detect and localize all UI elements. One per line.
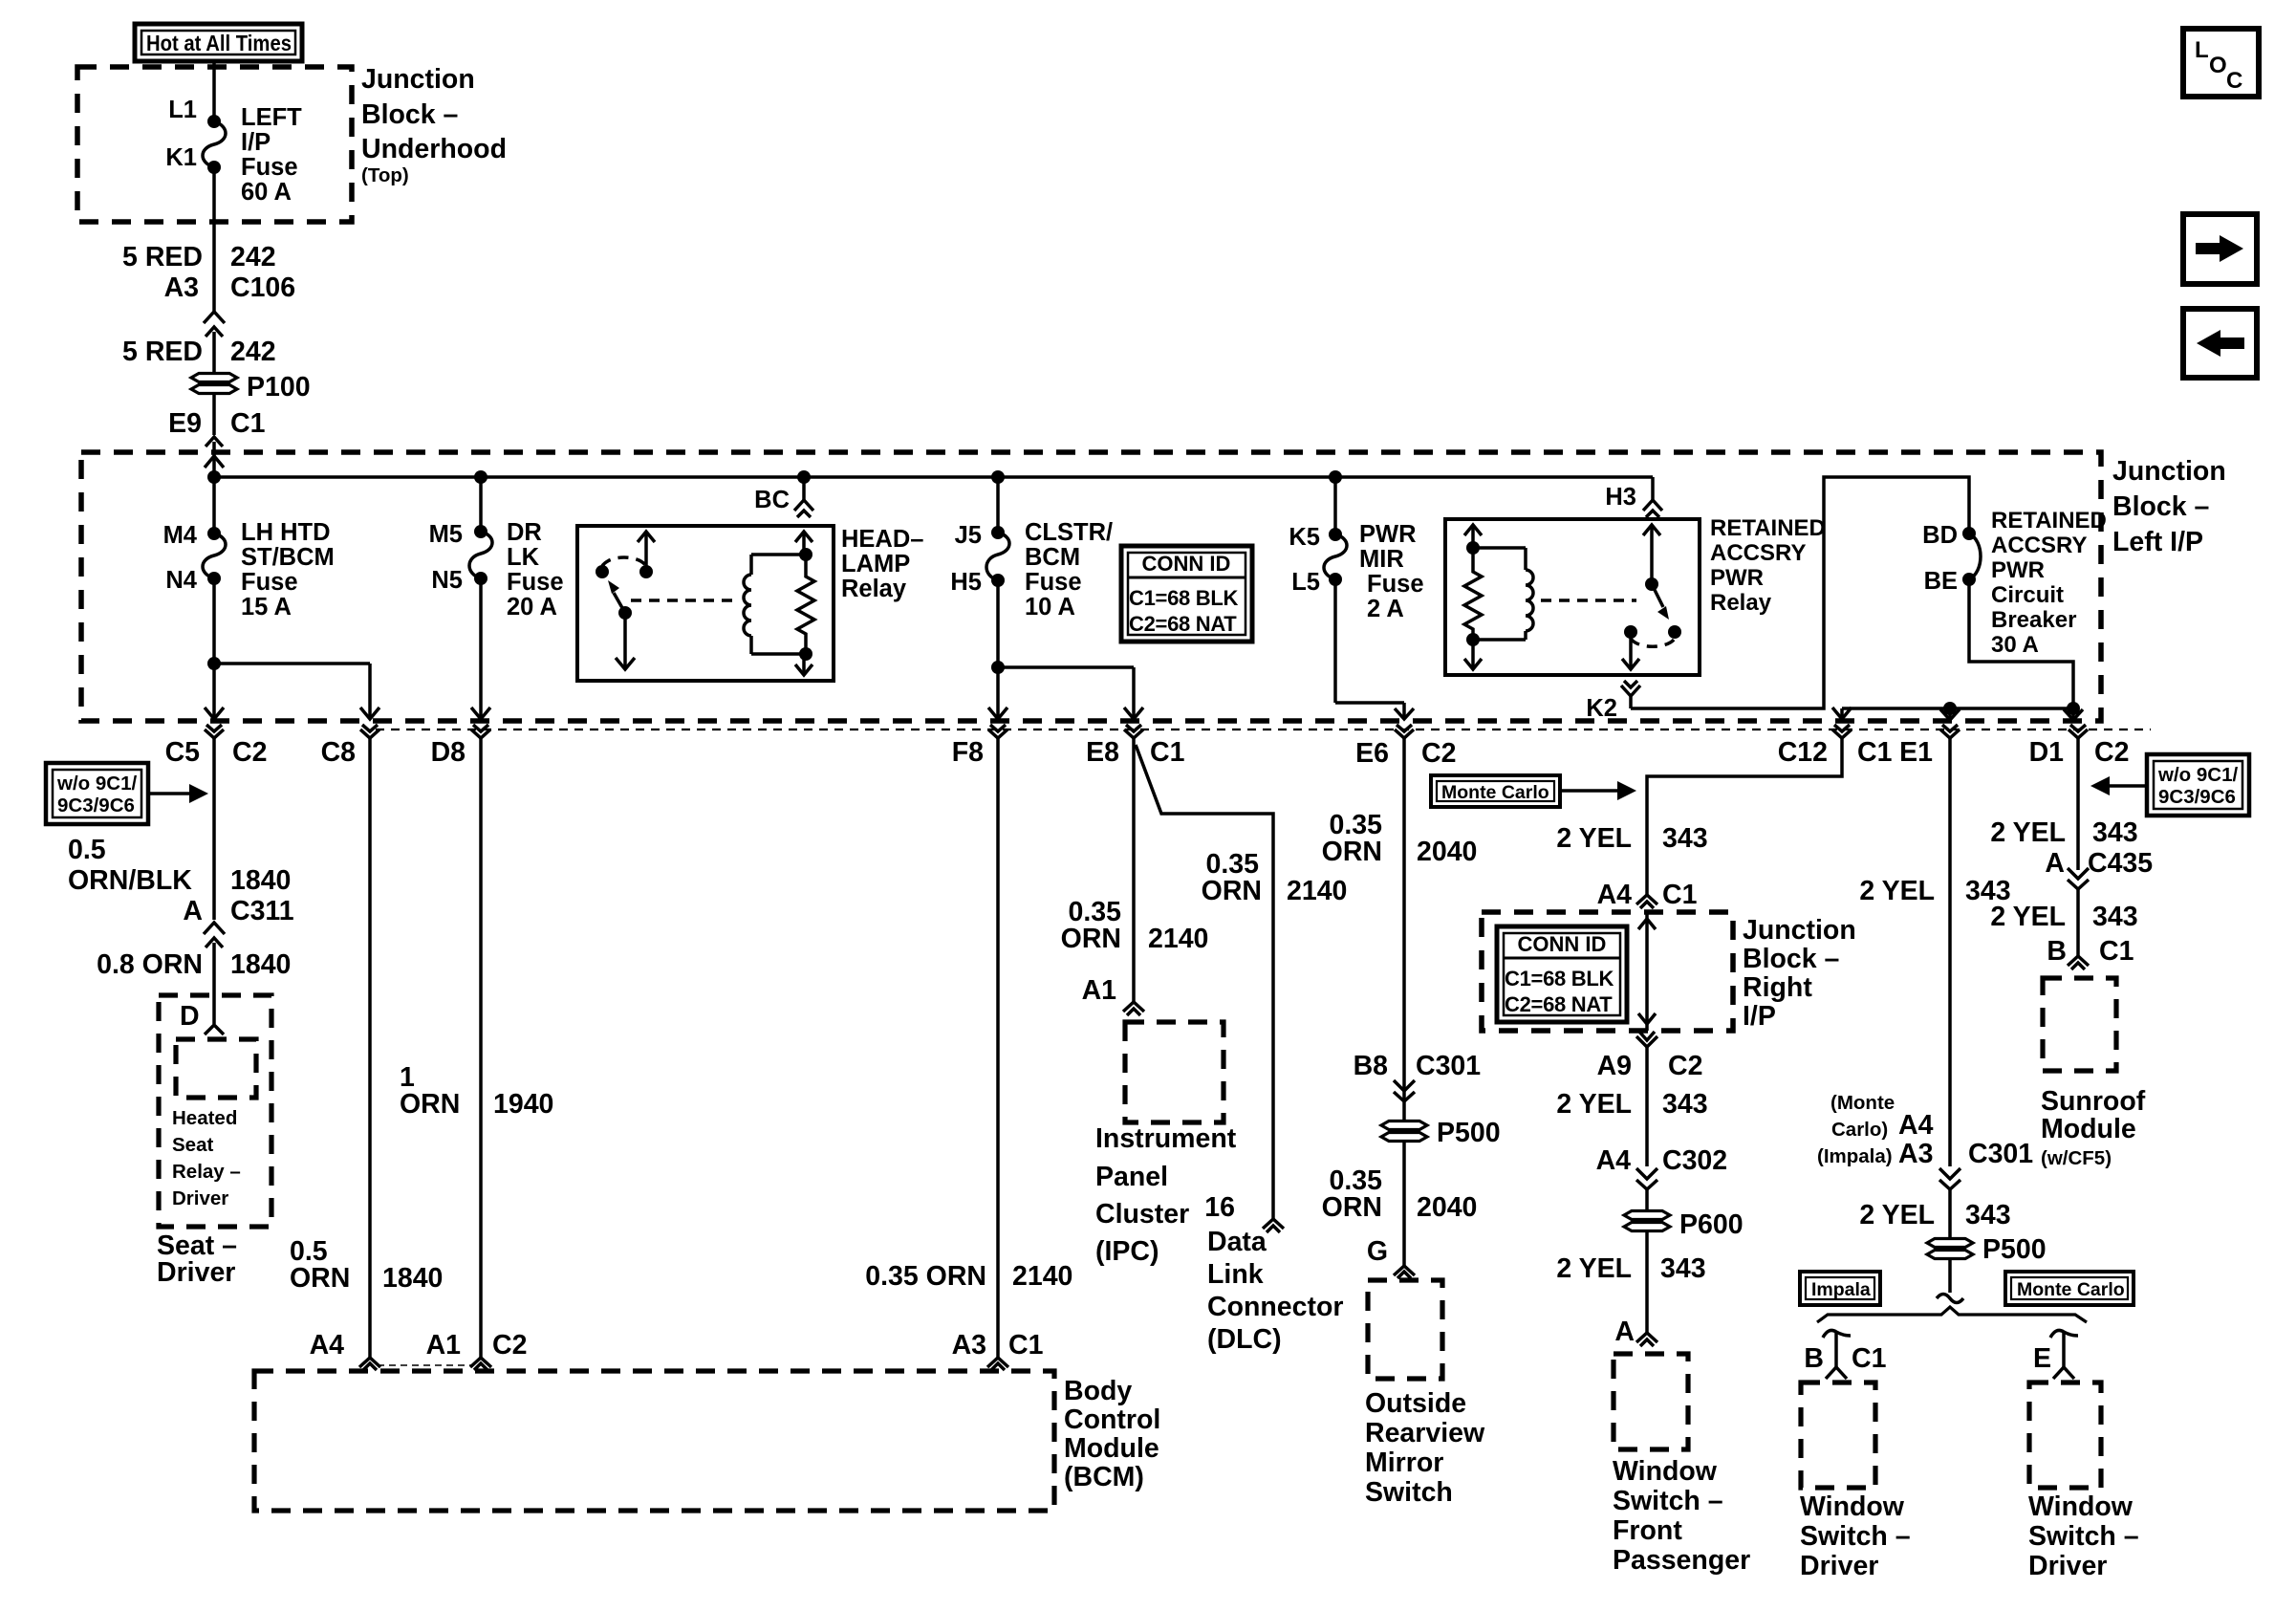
BCM pin A1/C2 xyxy=(426,1330,528,1370)
CONN ID table (left) xyxy=(1121,546,1252,642)
fuse DR LK 20A (M5/N5) xyxy=(429,477,564,620)
svg-text:C1: C1 xyxy=(1150,737,1185,768)
driver window switch lead E (Monte Carlo) xyxy=(2033,1330,2078,1379)
svg-text:(IPC): (IPC) xyxy=(1095,1236,1159,1267)
svg-text:Window: Window xyxy=(1800,1491,1905,1522)
svg-text:B: B xyxy=(1804,1343,1824,1374)
JB right pin A9/C2 xyxy=(1597,1032,1703,1166)
svg-text:K5: K5 xyxy=(1289,524,1320,551)
connector C106 (A3) in-line, pointing up xyxy=(164,272,296,374)
svg-text:343: 343 xyxy=(1662,1089,1708,1120)
wire through JB right with arrows xyxy=(1638,912,1656,1031)
svg-text:(Monte: (Monte xyxy=(1830,1092,1895,1114)
svg-text:2140: 2140 xyxy=(1287,876,1347,906)
connector E1 xyxy=(1899,725,1960,1166)
left arrow nav box xyxy=(2183,309,2257,378)
arrow down at C5/C2 exit xyxy=(205,708,224,719)
svg-text:Seat: Seat xyxy=(172,1134,213,1156)
headlamp relay resistor xyxy=(797,555,814,654)
wire label 0.35 ORN 2040 (E6 wire upper) xyxy=(1322,810,1478,867)
svg-text:60 A: 60 A xyxy=(241,179,292,206)
RETAINED ACCSRY PWR relay box xyxy=(1445,519,1700,675)
svg-text:Relay –: Relay – xyxy=(172,1161,241,1183)
svg-text:2040: 2040 xyxy=(1417,837,1477,867)
svg-text:2 YEL: 2 YEL xyxy=(1859,1200,1935,1230)
wire from E8 down to IPC xyxy=(1132,737,1136,1002)
svg-text:9C3/9C6: 9C3/9C6 xyxy=(57,795,135,816)
wire from Hot at All Times into fuse L1 xyxy=(212,59,216,121)
svg-text:Panel: Panel xyxy=(1095,1162,1168,1192)
svg-text:ORN: ORN xyxy=(400,1089,460,1120)
svg-text:A3: A3 xyxy=(164,272,199,303)
wire label 0.5 ORN 1840 (C8 wire) xyxy=(290,1236,443,1294)
svg-text:30 A: 30 A xyxy=(1991,632,2039,658)
wire label 5 RED 242 (above C106) xyxy=(122,242,276,272)
svg-text:Link: Link xyxy=(1207,1259,1264,1290)
svg-text:2 YEL: 2 YEL xyxy=(1556,1253,1632,1284)
svg-text:0.35 ORN: 0.35 ORN xyxy=(865,1261,986,1292)
output rail to C12 / E1 / D1 xyxy=(1842,702,2080,719)
svg-text:H5: H5 xyxy=(950,569,982,596)
svg-text:ORN: ORN xyxy=(1322,1192,1382,1223)
svg-text:P500: P500 xyxy=(1982,1234,2047,1265)
connector chevron below E9 C1 xyxy=(206,437,223,446)
svg-text:C1: C1 xyxy=(1852,1343,1887,1374)
svg-text:I/P: I/P xyxy=(1743,1001,1776,1032)
svg-text:C: C xyxy=(2226,68,2242,94)
svg-text:C1=68 BLK: C1=68 BLK xyxy=(1129,586,1238,610)
svg-text:2140: 2140 xyxy=(1012,1261,1072,1292)
svg-text:E9: E9 xyxy=(168,408,202,439)
w/o 9C1/9C3/9C6 flag box (left) xyxy=(46,763,208,824)
svg-text:L5: L5 xyxy=(1291,569,1320,596)
svg-text:2 A: 2 A xyxy=(1367,596,1404,622)
svg-text:ORN/BLK: ORN/BLK xyxy=(68,865,192,896)
svg-text:Body: Body xyxy=(1064,1376,1132,1406)
Window Switch - Driver label (Impala) xyxy=(1800,1491,1911,1581)
dashed link between BCM pins A4 and A1 xyxy=(378,1364,473,1366)
fuse LEFT I/P 60A (L1/K1) xyxy=(165,97,302,206)
svg-text:B: B xyxy=(2047,936,2067,967)
splice P500 (mirror wire) xyxy=(1381,1118,1501,1148)
svg-text:Window: Window xyxy=(1613,1456,1718,1487)
Window Switch - Driver dashed box (Monte Carlo) xyxy=(2029,1382,2101,1488)
wire from fuse K1 down to connector C106 xyxy=(212,167,216,312)
svg-text:ORN: ORN xyxy=(1202,876,1262,906)
svg-text:Breaker: Breaker xyxy=(1991,607,2076,633)
svg-text:A4: A4 xyxy=(310,1330,345,1361)
svg-text:A: A xyxy=(1614,1317,1635,1347)
connector E6/C2 xyxy=(1355,725,1456,1266)
svg-text:0.5: 0.5 xyxy=(68,835,106,865)
wire from P600 to window switch xyxy=(1645,1231,1649,1333)
wire label 2 YEL 343 (monte carlo middle) xyxy=(1556,1089,1707,1120)
Impala flag box xyxy=(1800,1272,1880,1305)
retained relay coil drive dashed wire xyxy=(1541,599,1636,602)
wire label 5 RED 242 (below C106) xyxy=(122,337,276,367)
Window Switch - Driver label (Monte Carlo) xyxy=(2028,1491,2139,1581)
Window Switch - Front Passenger dashed box xyxy=(1614,1354,1688,1449)
svg-text:343: 343 xyxy=(1662,823,1708,854)
svg-text:C12: C12 xyxy=(1778,737,1828,768)
elbow from C12 to monte carlo wire xyxy=(1647,737,1842,895)
svg-text:Fuse: Fuse xyxy=(241,154,298,181)
svg-text:B8: B8 xyxy=(1354,1051,1388,1081)
svg-text:15 A: 15 A xyxy=(241,594,292,620)
headlamp relay internal connections xyxy=(751,532,812,675)
svg-text:LEFT: LEFT xyxy=(241,104,302,131)
svg-text:PWR: PWR xyxy=(1710,565,1764,591)
wire label 2 YEL 343 (D1 lower) xyxy=(1990,902,2137,932)
connector plane thin dashed line xyxy=(376,729,2151,730)
svg-text:1840: 1840 xyxy=(382,1263,443,1294)
retained relay pin K2 xyxy=(1586,681,1640,722)
svg-text:C1: C1 xyxy=(1662,880,1698,910)
svg-text:Right: Right xyxy=(1743,972,1812,1003)
fuse CLSTR/BCM 10A (J5/H5) xyxy=(950,477,1113,620)
wire label 0.35 ORN 2040 (E6 wire lower) xyxy=(1322,1165,1478,1223)
svg-text:Fuse: Fuse xyxy=(1025,569,1082,596)
svg-text:A: A xyxy=(2045,848,2065,879)
circuit breaker BD/BE xyxy=(1922,522,1981,595)
svg-text:242: 242 xyxy=(230,242,276,272)
svg-text:Driver: Driver xyxy=(1800,1551,1878,1581)
IPC pin A1 xyxy=(1082,975,1144,1015)
svg-text:C2: C2 xyxy=(1421,738,1456,769)
svg-text:RETAINED: RETAINED xyxy=(1991,508,2107,533)
svg-text:Underhood: Underhood xyxy=(361,134,507,164)
Instrument Panel Cluster label xyxy=(1095,1123,1237,1267)
svg-text:PWR: PWR xyxy=(1359,521,1417,548)
svg-text:D8: D8 xyxy=(431,737,466,768)
svg-text:D1: D1 xyxy=(2029,737,2065,768)
svg-text:Driver: Driver xyxy=(157,1257,235,1288)
svg-text:Junction: Junction xyxy=(2112,456,2226,487)
svg-text:2 YEL: 2 YEL xyxy=(1556,823,1632,854)
svg-text:Switch –: Switch – xyxy=(2028,1521,2139,1552)
svg-text:C311: C311 xyxy=(230,896,294,926)
driver window switch lead B/C1 (Impala) xyxy=(1804,1330,1886,1379)
svg-text:Sunroof: Sunroof xyxy=(2041,1086,2146,1117)
svg-text:N4: N4 xyxy=(165,567,197,594)
arrow down at C8 exit xyxy=(360,708,379,719)
svg-text:Outside: Outside xyxy=(1365,1388,1466,1419)
splice P100 xyxy=(191,372,311,403)
svg-text:Mirror: Mirror xyxy=(1365,1448,1443,1478)
wire label 2 YEL 343 (monte carlo upper) xyxy=(1556,823,1707,854)
svg-text:C1: C1 xyxy=(1857,737,1893,768)
svg-text:Fuse: Fuse xyxy=(241,569,298,596)
svg-text:Connector: Connector xyxy=(1207,1292,1344,1322)
svg-text:ACCSRY: ACCSRY xyxy=(1710,540,1806,566)
svg-text:I/P: I/P xyxy=(241,129,271,156)
headlamp relay label xyxy=(841,526,923,602)
CONN ID table (right) xyxy=(1497,926,1627,1022)
Sunroof Module label xyxy=(2041,1086,2146,1169)
svg-text:Junction: Junction xyxy=(361,64,475,95)
wire label 2 YEL 343 (E1 upper) xyxy=(1859,876,2010,906)
Data Link Connector label xyxy=(1207,1227,1344,1355)
connector C301 labels (Monte Carlo A4 / Impala A3) xyxy=(1817,1092,2033,1169)
svg-text:Cluster: Cluster xyxy=(1095,1199,1189,1230)
circuit breaker label xyxy=(1991,508,2107,658)
svg-text:A4: A4 xyxy=(1596,1145,1632,1176)
svg-text:2040: 2040 xyxy=(1417,1192,1477,1223)
retained relay switch xyxy=(1622,525,1681,669)
svg-text:L: L xyxy=(2195,37,2209,63)
HEADLAMP relay box xyxy=(577,526,834,681)
svg-text:ACCSRY: ACCSRY xyxy=(1991,533,2087,558)
svg-text:C2=68 NAT: C2=68 NAT xyxy=(1505,992,1613,1016)
svg-text:HEAD–: HEAD– xyxy=(841,526,923,553)
svg-text:H3: H3 xyxy=(1605,484,1636,511)
svg-text:Monte Carlo: Monte Carlo xyxy=(1441,782,1549,803)
svg-text:BD: BD xyxy=(1922,522,1958,549)
wire label 2 YEL 343 (monte carlo lower) xyxy=(1556,1253,1705,1284)
svg-text:BC: BC xyxy=(754,487,790,513)
svg-text:L1: L1 xyxy=(168,97,197,123)
wire below P500 with break squiggle xyxy=(1937,1259,1963,1303)
svg-text:A: A xyxy=(183,896,203,926)
connector C302 (A4) in-line xyxy=(1596,1145,1728,1211)
wire from BE to output rail xyxy=(1969,579,2073,708)
wire from N4 down with branch to C8 xyxy=(207,578,370,719)
wire from P100 down to E9 C1 connector xyxy=(212,394,216,435)
svg-text:Module: Module xyxy=(1064,1433,1159,1464)
wire label 0.8 ORN 1840 xyxy=(97,949,291,980)
wire label 0.35 ORN 2140 (E8 wire) xyxy=(1061,897,1209,954)
svg-text:Block –: Block – xyxy=(2112,491,2209,522)
svg-text:Instrument: Instrument xyxy=(1095,1123,1237,1154)
svg-text:LH HTD: LH HTD xyxy=(241,519,330,546)
split brace xyxy=(1817,1307,2087,1322)
svg-text:A4: A4 xyxy=(1597,880,1633,910)
svg-text:C8: C8 xyxy=(321,737,356,768)
connector C301 (B8) in-line xyxy=(1354,1051,1482,1101)
svg-text:BE: BE xyxy=(1924,568,1958,595)
svg-text:1940: 1940 xyxy=(493,1089,553,1120)
svg-text:BCM: BCM xyxy=(1025,544,1080,571)
wire arrow into heated seat relay xyxy=(205,1025,224,1034)
svg-text:343: 343 xyxy=(2092,817,2138,848)
svg-text:0.8 ORN: 0.8 ORN xyxy=(97,949,203,980)
svg-text:RETAINED: RETAINED xyxy=(1710,515,1826,541)
svg-text:ORN: ORN xyxy=(1322,837,1382,867)
svg-text:Module: Module xyxy=(2041,1114,2136,1144)
svg-text:Control: Control xyxy=(1064,1404,1160,1435)
svg-text:w/o 9C1/: w/o 9C1/ xyxy=(56,773,137,795)
sunroof module pin B/C1 xyxy=(2047,936,2134,969)
svg-text:O: O xyxy=(2209,53,2227,78)
svg-text:10 A: 10 A xyxy=(1025,594,1075,620)
Heated Seat Relay - Driver outer dashed box xyxy=(159,995,271,1227)
svg-text:C2: C2 xyxy=(1668,1051,1702,1081)
JB right pin A4/C1 xyxy=(1597,880,1698,910)
svg-text:N5: N5 xyxy=(431,567,463,594)
svg-text:P100: P100 xyxy=(247,372,311,403)
svg-text:C302: C302 xyxy=(1662,1145,1727,1176)
connector C301 (E1) in-line xyxy=(1939,1168,1960,1239)
svg-text:343: 343 xyxy=(1965,1200,2011,1230)
Junction Block - Underhood label xyxy=(361,64,507,186)
w/o 9C1/9C3/9C6 flag box (right) xyxy=(2090,754,2249,816)
svg-text:C301: C301 xyxy=(1968,1139,2033,1169)
svg-text:C1=68 BLK: C1=68 BLK xyxy=(1505,967,1614,991)
connector C12/C1 xyxy=(1778,725,1893,768)
svg-text:A9: A9 xyxy=(1597,1051,1632,1081)
svg-text:20 A: 20 A xyxy=(507,594,557,620)
svg-text:A4: A4 xyxy=(1898,1110,1934,1141)
connector D8 xyxy=(431,725,490,1358)
svg-text:C1: C1 xyxy=(2099,936,2134,967)
connector D1/C2 xyxy=(2029,725,2130,870)
BCM pin A3/C1 xyxy=(952,1330,1044,1370)
svg-text:C2: C2 xyxy=(492,1330,527,1361)
svg-text:242: 242 xyxy=(230,337,276,367)
svg-text:Hot at All Times: Hot at All Times xyxy=(146,31,292,55)
svg-text:Driver: Driver xyxy=(172,1187,228,1209)
diagonal branch from E8 to DLC drop xyxy=(1136,745,1273,1219)
main bus wire inside junction block xyxy=(214,475,1653,479)
wire label 0.35 ORN 2140 (F8 wire) xyxy=(865,1261,1072,1292)
Outside Rearview Mirror Switch dashed box xyxy=(1368,1280,1442,1379)
svg-text:(Top): (Top) xyxy=(361,164,409,186)
connector C5/C2 xyxy=(165,725,268,920)
svg-text:2 YEL: 2 YEL xyxy=(1990,817,2066,848)
Junction Block - Right I/P label xyxy=(1743,915,1856,1032)
wire label 0.5 ORN/BLK 1840 xyxy=(68,835,291,896)
retained relay resistor xyxy=(1464,525,1482,669)
svg-text:P600: P600 xyxy=(1679,1209,1744,1240)
right arrow nav box xyxy=(2183,214,2257,284)
svg-text:DR: DR xyxy=(507,519,542,546)
svg-text:PWR: PWR xyxy=(1991,557,2045,583)
headlamp relay coil xyxy=(744,555,751,654)
svg-text:C106: C106 xyxy=(230,272,295,303)
svg-text:2 YEL: 2 YEL xyxy=(1859,876,1935,906)
svg-text:1840: 1840 xyxy=(230,865,291,896)
svg-text:C435: C435 xyxy=(2088,848,2153,879)
svg-text:Relay: Relay xyxy=(841,576,907,602)
bus junction node dots xyxy=(207,470,221,484)
svg-text:MIR: MIR xyxy=(1359,546,1404,573)
svg-text:Junction: Junction xyxy=(1743,915,1856,946)
svg-text:2 YEL: 2 YEL xyxy=(1556,1089,1632,1120)
svg-text:(w/CF5): (w/CF5) xyxy=(2041,1147,2112,1169)
connector F8 xyxy=(952,725,1007,1358)
svg-text:Passenger: Passenger xyxy=(1613,1545,1750,1576)
wire from H5 down with branch to E8 xyxy=(991,580,1134,719)
splice P500 (driver window wire) xyxy=(1927,1234,2047,1265)
svg-text:M5: M5 xyxy=(429,521,463,548)
svg-text:Impala: Impala xyxy=(1811,1279,1871,1300)
svg-text:E: E xyxy=(2033,1343,2051,1374)
svg-text:Switch –: Switch – xyxy=(1613,1486,1723,1516)
Instrument Panel Cluster dashed box xyxy=(1125,1022,1224,1122)
svg-text:Circuit: Circuit xyxy=(1991,582,2064,608)
svg-text:K1: K1 xyxy=(165,144,197,171)
svg-text:Switch –: Switch – xyxy=(1800,1521,1911,1552)
wire from K2 to circuit breaker BD xyxy=(1631,477,1969,708)
svg-text:2 YEL: 2 YEL xyxy=(1990,902,2066,932)
Heated Seat Relay - Driver inner label xyxy=(172,1107,241,1209)
svg-text:P500: P500 xyxy=(1437,1118,1501,1148)
svg-text:C2: C2 xyxy=(232,737,267,768)
connector E9 C1 labels xyxy=(168,408,265,439)
svg-text:Window: Window xyxy=(2028,1491,2134,1522)
Monte Carlo flag box xyxy=(1431,775,1636,807)
svg-text:9C3/9C6: 9C3/9C6 xyxy=(2158,786,2236,808)
connector C311 (A) in-line xyxy=(183,896,293,1024)
svg-text:CONN ID: CONN ID xyxy=(1142,552,1231,576)
connector E8/C1 xyxy=(1086,725,1184,768)
splice P600 xyxy=(1624,1209,1744,1240)
svg-text:C1: C1 xyxy=(230,408,266,439)
retained relay pin H3 xyxy=(1605,477,1662,517)
svg-text:C5: C5 xyxy=(165,737,201,768)
svg-text:Fuse: Fuse xyxy=(1367,571,1424,598)
svg-text:C2=68 NAT: C2=68 NAT xyxy=(1129,612,1237,636)
svg-text:E8: E8 xyxy=(1086,737,1119,768)
Hot at All Times label box xyxy=(135,24,302,61)
Junction Block - Underhood dashed box xyxy=(77,67,352,222)
svg-text:Block –: Block – xyxy=(1743,944,1839,974)
svg-text:2140: 2140 xyxy=(1148,924,1208,954)
connector C435 (A) in-line xyxy=(2045,848,2153,956)
mirror switch pin G xyxy=(1367,1236,1415,1278)
wire label 1 ORN 1940 (D8 wire) xyxy=(400,1062,553,1120)
svg-text:343: 343 xyxy=(1660,1253,1706,1284)
svg-text:CLSTR/: CLSTR/ xyxy=(1025,519,1113,546)
Window Switch - Driver dashed box (Impala) xyxy=(1801,1382,1875,1488)
svg-text:M4: M4 xyxy=(163,522,198,549)
svg-text:Carlo): Carlo) xyxy=(1831,1119,1888,1141)
svg-text:5 RED: 5 RED xyxy=(122,337,203,367)
LOC box xyxy=(2183,29,2259,97)
svg-text:ST/BCM: ST/BCM xyxy=(241,544,335,571)
Sunroof Module dashed box xyxy=(2043,978,2116,1071)
svg-text:J5: J5 xyxy=(955,522,982,549)
svg-text:Switch: Switch xyxy=(1365,1477,1453,1508)
svg-text:Left I/P: Left I/P xyxy=(2112,527,2203,557)
svg-text:(DLC): (DLC) xyxy=(1207,1324,1282,1355)
svg-text:A3: A3 xyxy=(952,1330,986,1361)
svg-text:Monte Carlo: Monte Carlo xyxy=(2017,1279,2125,1300)
svg-text:F8: F8 xyxy=(952,737,984,768)
Window Switch - Front Passenger label xyxy=(1613,1456,1750,1576)
retained relay label xyxy=(1710,515,1826,616)
wire label 2 YEL 343 (E1 lower) xyxy=(1859,1200,2010,1230)
headlamp relay switch xyxy=(596,532,655,669)
svg-text:w/o 9C1/: w/o 9C1/ xyxy=(2157,764,2238,786)
svg-text:ORN: ORN xyxy=(290,1263,350,1294)
wire from N5 down to D8 exit xyxy=(479,578,483,719)
svg-text:E1: E1 xyxy=(1899,737,1933,768)
svg-text:Rearview: Rearview xyxy=(1365,1418,1485,1448)
Seat - Driver label xyxy=(157,1230,237,1288)
svg-text:D: D xyxy=(180,1001,200,1032)
svg-text:CONN ID: CONN ID xyxy=(1518,932,1607,956)
svg-text:(Impala): (Impala) xyxy=(1817,1145,1893,1167)
BCM pin A4 xyxy=(310,1330,380,1370)
headlamp relay pin BC xyxy=(754,477,813,517)
svg-text:LK: LK xyxy=(507,544,540,571)
headlamp relay coil drive dashed wire xyxy=(631,599,736,602)
svg-text:ORN: ORN xyxy=(1061,924,1121,954)
wire label 2 YEL 343 (D1 upper) xyxy=(1990,817,2137,848)
connector C8 xyxy=(321,725,379,1358)
svg-text:Heated: Heated xyxy=(172,1107,237,1129)
